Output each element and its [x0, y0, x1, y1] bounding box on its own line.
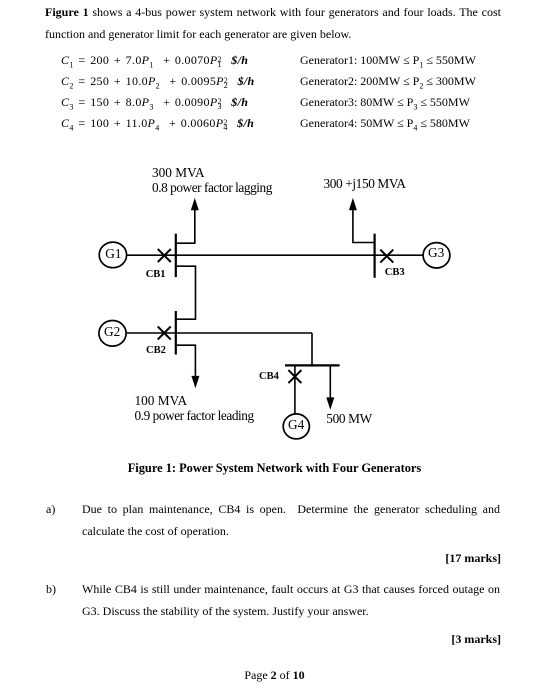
label CB1 — [146, 269, 166, 280]
bus2 load arrowhead (down) — [193, 377, 199, 386]
label G1 — [105, 246, 121, 262]
generator G3 — [423, 243, 450, 268]
bus3 load arrowhead — [350, 201, 356, 210]
wire bus4 to G4 — [294, 365, 296, 413]
load label 300 MVA — [152, 165, 272, 195]
header paragraph — [45, 1, 501, 45]
wire G1 to G3 — [127, 254, 424, 256]
load label 300 +j150 MVA — [324, 176, 406, 192]
bus3 load jog — [353, 209, 375, 243]
label CB3 — [385, 267, 405, 278]
breaker CB3 X — [380, 250, 393, 263]
generator G1 — [99, 242, 126, 268]
label CB2 — [146, 345, 166, 356]
bus 3 — [374, 234, 376, 278]
label G3 — [428, 245, 444, 261]
wire corner down to bus 4 — [311, 333, 313, 365]
bus 2 — [175, 311, 177, 355]
bus2 load jog — [176, 345, 196, 377]
one-line diagram SVG — [0, 0, 559, 460]
marks a — [0, 551, 501, 566]
bus4 load arrowhead (down) — [327, 398, 333, 407]
breaker CB2 X — [158, 327, 171, 340]
figure caption — [0, 461, 549, 476]
bus1 to bus2 tie jog — [176, 266, 196, 319]
marks b — [0, 632, 501, 647]
breaker CB1 X — [158, 249, 171, 262]
bus1 load jog — [176, 209, 195, 243]
load label 500 MW — [326, 411, 372, 427]
page footer — [0, 668, 549, 683]
label CB4 — [259, 371, 279, 382]
wire G2 to corner — [126, 332, 312, 334]
load label 100 MVA — [135, 393, 254, 423]
bus 1 — [175, 234, 177, 277]
part b — [46, 578, 56, 600]
breaker CB4 X — [288, 370, 301, 383]
bus1 load arrowhead — [192, 201, 198, 210]
bus 4 — [285, 364, 340, 366]
generator G4 — [283, 414, 309, 439]
bus4 load line — [329, 365, 331, 398]
part a — [46, 498, 55, 520]
generator limits — [300, 50, 476, 134]
cost function equations — [61, 50, 255, 134]
generator G2 — [99, 321, 126, 347]
label G4 — [288, 417, 304, 433]
label G2 — [104, 324, 120, 340]
